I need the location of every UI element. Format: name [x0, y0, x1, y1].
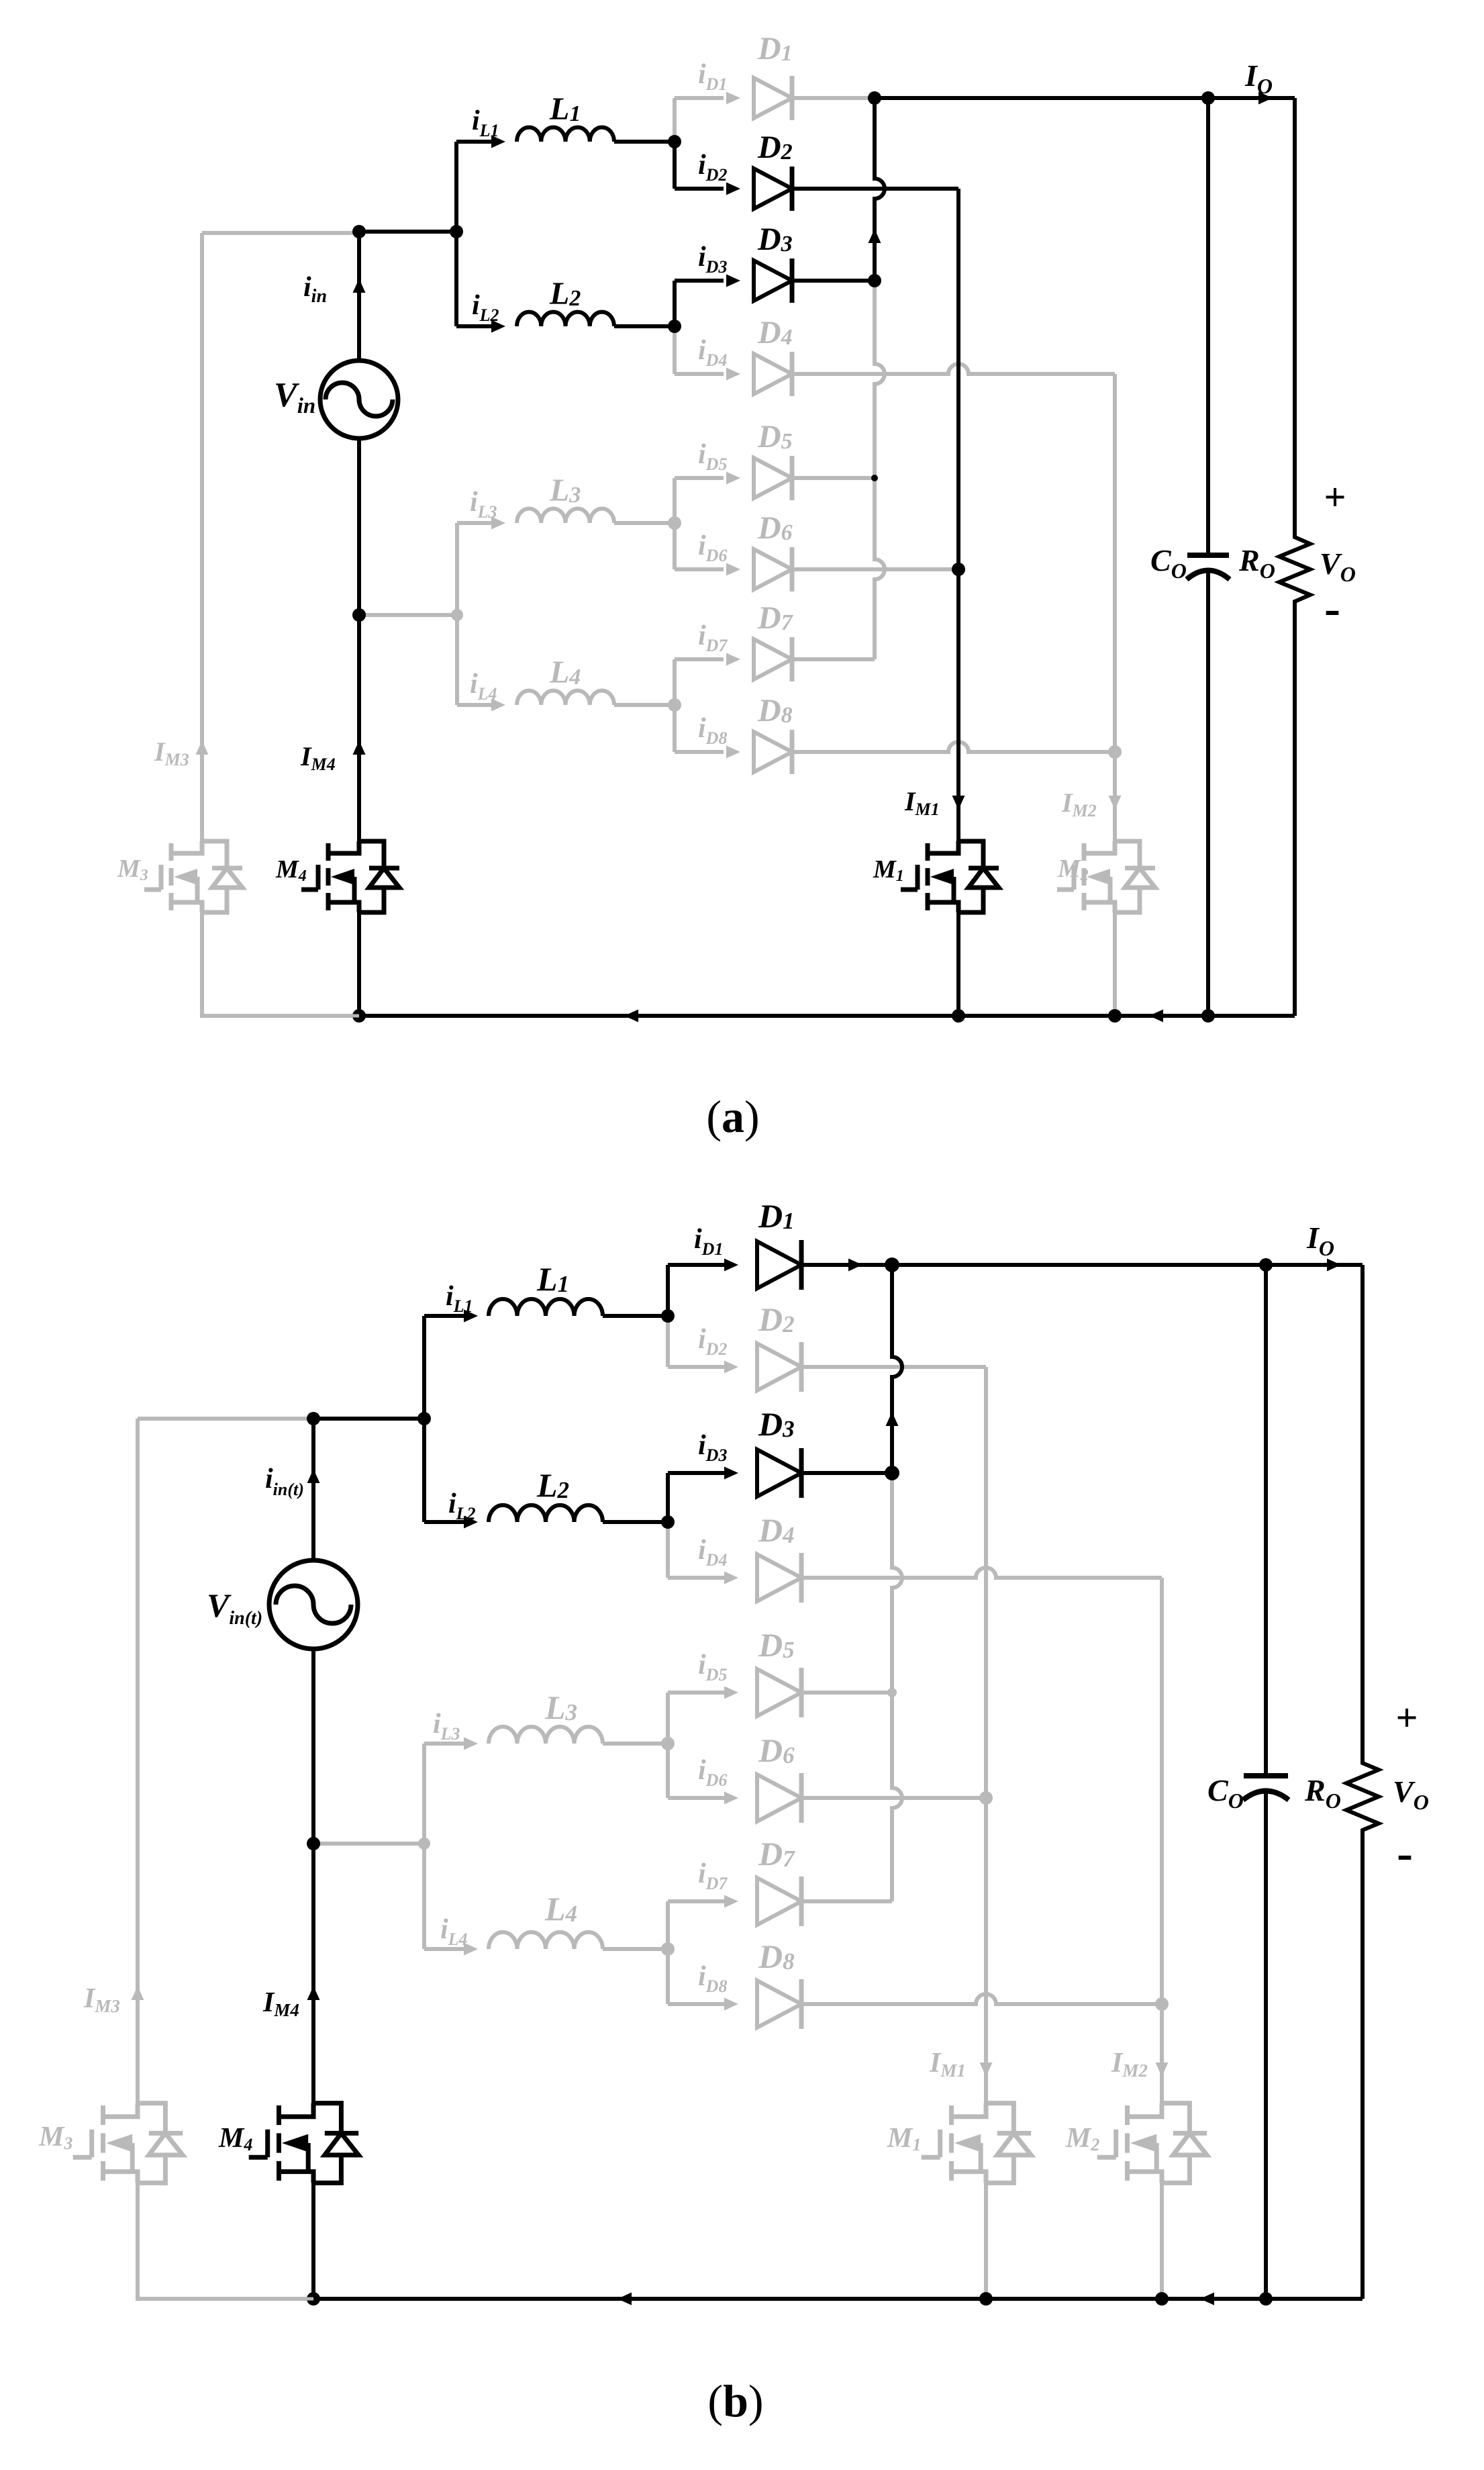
svg-text:(a): (a): [706, 1091, 759, 1142]
svg-text:-: -: [1324, 581, 1340, 635]
svg-text:+: +: [1324, 475, 1346, 519]
svg-text:(b): (b): [707, 2375, 763, 2426]
svg-text:-: -: [1397, 1826, 1413, 1880]
svg-text:+: +: [1395, 1696, 1418, 1740]
